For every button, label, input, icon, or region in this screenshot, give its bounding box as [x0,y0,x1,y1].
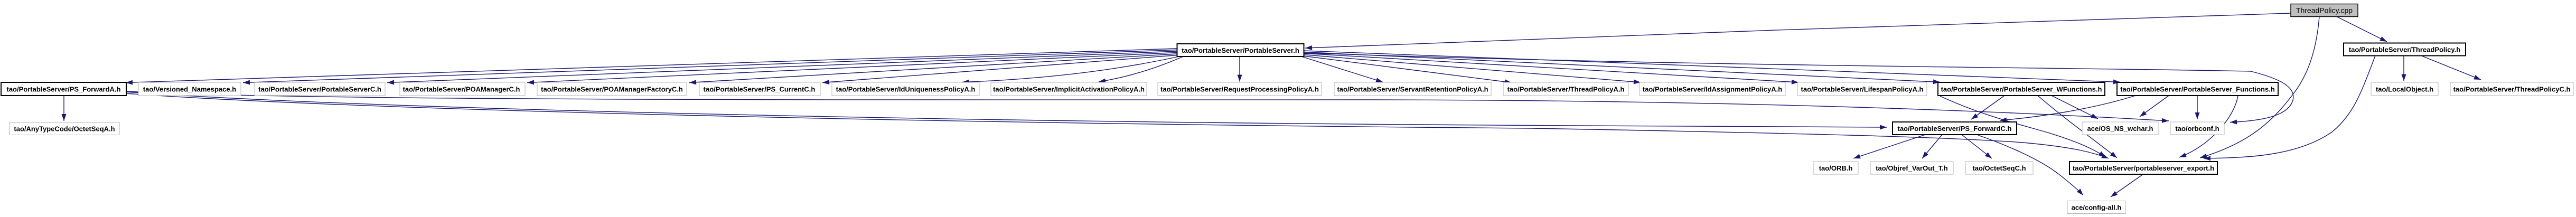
wire WFunctions to portableserver_export.h (second strand) [2038,96,2117,158]
wire WFunctions to OS_NS_wchar.h [2052,96,2098,119]
node tao/orbconf.h [2170,122,2224,135]
wire hub to Versioned_Namespace.h [243,50,1177,83]
node tao/PortableServer/PS_ForwardA.h [1,82,126,96]
node ace/config-all.h [2067,201,2125,214]
node tao/PortableServer/RequestProcessingPolicyA.h [1158,82,1322,96]
wire PS_ForwardC.h to OctetSeqC.h [1962,135,1992,158]
svg-text:tao/Versioned_Namespace.h: tao/Versioned_Namespace.h [143,86,236,93]
svg-text:tao/PortableServer/RequestProc: tao/PortableServer/RequestProcessingPoli… [1160,86,1319,93]
wire WFunctions to portableserver_export.h [1940,96,2105,157]
svg-text:tao/PortableServer/PS_CurrentC: tao/PortableServer/PS_CurrentC.h [704,86,816,93]
svg-text:tao/PortableServer/ImplicitAct: tao/PortableServer/ImplicitActivationPol… [993,86,1145,93]
wire hub to PortableServer_Functions.h [1304,51,2120,82]
node tao/PortableServer/ImplicitActivationPolicyA.h [991,82,1147,96]
node tao/PortableServer/IdUniquenessPolicyA.h [832,82,979,96]
svg-text:tao/PortableServer/PortableSer: tao/PortableServer/PortableServer_WFunct… [1941,86,2102,93]
node tao/PortableServer/LifespanPolicyA.h [1797,82,1927,96]
svg-text:tao/PortableServer/POAManagerF: tao/PortableServer/POAManagerFactoryC.h [541,86,683,93]
svg-text:tao/ORB.h: tao/ORB.h [1819,164,1853,172]
wire ThreadPolicy.h to ThreadPolicyC.h [2421,56,2481,80]
node tao/Objref_VarOut_T.h [1870,162,1953,174]
wire hub to LifespanPolicyA.h [1304,53,1798,82]
svg-text:tao/PortableServer/IdUniquenes: tao/PortableServer/IdUniquenessPolicyA.h [836,86,976,93]
wire hub to POAManagerC.h [527,53,1177,83]
node tao/PortableServer/PortableServer_WFunctions.h [1938,82,2105,96]
node tao/PortableServer/PS_ForwardC.h [1893,122,2017,135]
wire Functions to portableserver_export.h [2179,96,2238,157]
node tao/PortableServer/POAManagerFactoryC.h [537,82,687,96]
wire ThreadPolicy.h to LocalObject.h [2403,56,2404,81]
wire cpp to ThreadPolicy.h [2337,17,2387,42]
svg-text:tao/PortableServer/IdAssignmen: tao/PortableServer/IdAssignmentPolicyA.h [1643,86,1782,93]
svg-text:ThreadPolicy.cpp: ThreadPolicy.cpp [2296,6,2353,15]
wire hub to PortableServerC.h [387,51,1177,83]
svg-text:tao/PortableServer/PortableSer: tao/PortableServer/PortableServerC.h [258,86,381,93]
wire PS_ForwardC.h to Objref_VarOut_T.h [1922,135,1942,158]
wire Functions to PS_ForwardC.h [2000,96,2135,120]
svg-text:tao/AnyTypeCode/OctetSeqA.h: tao/AnyTypeCode/OctetSeqA.h [14,125,115,133]
wire hub to PS_CurrentC.h [822,55,1177,83]
svg-text:ace/OS_NS_wchar.h: ace/OS_NS_wchar.h [2087,125,2153,133]
node tao/OctetSeqC.h [1965,162,2033,174]
wire WFunctions to PS_ForwardC.h [1971,96,2004,119]
svg-text:tao/PortableServer/PS_ForwardC: tao/PortableServer/PS_ForwardC.h [1897,125,2011,133]
node tao/LocalObject.h [2371,82,2438,96]
wire hub to ServantRetentionPolicyA.h [1301,56,1383,82]
svg-text:tao/OctetSeqC.h: tao/OctetSeqC.h [1972,164,2026,172]
wire hub to ThreadPolicyA.h [1304,56,1512,83]
node ace/OS_NS_wchar.h [2082,122,2158,135]
node tao/PortableServer/PortableServer.h [1177,44,1304,56]
node tao/ORB.h [1813,162,1858,174]
wire hub to POAManagerFactoryC.h [689,54,1177,83]
wire PS_ForwardC.h to ORB.h [1853,135,1925,158]
svg-text:tao/PortableServer/portableser: tao/PortableServer/portableserver_export… [2073,164,2214,172]
node tao/PortableServer/ThreadPolicyA.h [1503,82,1628,96]
wire PS_ForwardA.h to PS_ForwardC.h [126,92,1887,127]
node tao/AnyTypeCode/OctetSeqA.h [10,122,119,135]
wire hub to PortableServer_WFunctions.h [1304,52,1940,82]
node tao/PortableServer/ServantRetentionPolicyA.h [1334,82,1491,96]
node tao/PortableServer/PS_CurrentC.h [699,82,820,96]
svg-text:tao/PortableServer/ThreadPolic: tao/PortableServer/ThreadPolicyC.h [2453,86,2571,93]
wire portableserver_export.h to config-all.h [2111,175,2142,197]
svg-text:tao/PortableServer/PortableSer: tao/PortableServer/PortableServer.h [1182,46,1299,54]
svg-text:tao/PortableServer/ThreadPolic: tao/PortableServer/ThreadPolicy.h [2349,46,2460,54]
svg-text:tao/PortableServer/PS_ForwardA: tao/PortableServer/PS_ForwardA.h [6,86,120,93]
svg-text:tao/PortableServer/PortableSer: tao/PortableServer/PortableServer_Functi… [2120,86,2275,93]
wire hub to orbconf.h (arc around Functions box) [1301,53,2293,122]
node ThreadPolicy.cpp [2291,4,2358,17]
svg-text:tao/PortableServer/ServantRete: tao/PortableServer/ServantRetentionPolic… [1337,86,1488,93]
wire ThreadPolicy.h to portableserver_export.h [2204,56,2375,159]
wire hub to PS_ForwardA.h [126,49,1177,83]
wire hub to IdUniquenessPolicyA.h [962,56,1179,82]
svg-text:tao/Objref_VarOut_T.h: tao/Objref_VarOut_T.h [1876,164,1948,172]
svg-text:tao/PortableServer/POAManagerC: tao/PortableServer/POAManagerC.h [403,86,520,93]
wire Functions to OS_NS_wchar.h [2140,96,2169,117]
svg-text:tao/PortableServer/LifespanPol: tao/PortableServer/LifespanPolicyA.h [1801,86,1924,93]
node tao/PortableServer/portableserver_export.h [2069,162,2217,174]
node tao/PortableServer/POAManagerC.h [400,82,525,96]
node tao/PortableServer/IdAssignmentPolicyA.h [1640,82,1785,96]
wire PS_ForwardA.h to OctetSeqA.h [63,96,64,121]
node tao/Versioned_Namespace.h [138,82,241,96]
wire PS_ForwardC.h to config-all.h [1978,135,2083,195]
svg-text:tao/LocalObject.h: tao/LocalObject.h [2376,86,2433,93]
wire PS_ForwardA.h to orbconf.h [126,91,2169,121]
node tao/PortableServer/PortableServer_Functions.h [2117,82,2278,96]
wire cpp to PortableServer.h hub [1305,13,2291,48]
node tao/PortableServer/ThreadPolicyC.h [2450,82,2573,96]
svg-text:tao/orbconf.h: tao/orbconf.h [2175,125,2219,133]
wire hub to RequestProcessingPolicyA.h [1239,56,1240,82]
wire PS_ForwardA.h to portableserver_export.h [126,93,2109,158]
node tao/PortableServer/PortableServerC.h [255,82,385,96]
wire hub to IdAssignmentPolicyA.h [1304,55,1641,83]
svg-text:tao/PortableServer/ThreadPolic: tao/PortableServer/ThreadPolicyA.h [1507,86,1625,93]
svg-text:ace/config-all.h: ace/config-all.h [2072,204,2122,212]
wire hub to ImplicitActivationPolicyA.h [1099,56,1183,82]
wire cpp to portableserver_export.h [2200,17,2319,158]
wire Functions to orbconf.h [2197,96,2198,119]
node tao/PortableServer/ThreadPolicy.h [2344,43,2466,56]
